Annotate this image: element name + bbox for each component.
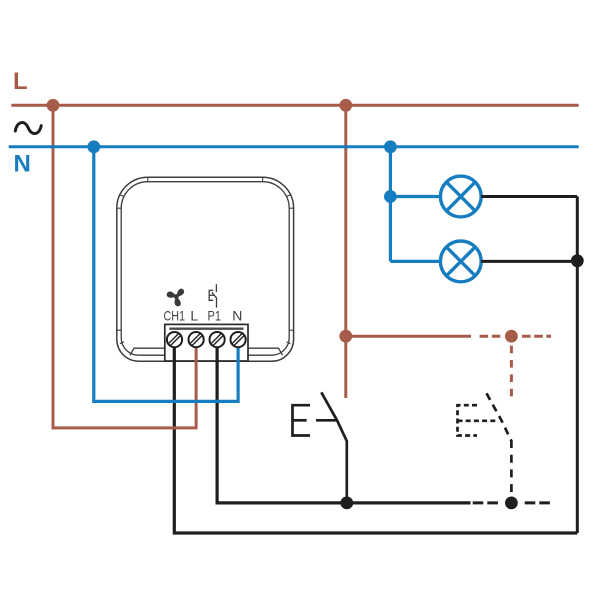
wire: black lamp E1 return: [481, 195, 577, 198]
wire: brown dashed drop to switch S2: [510, 346, 513, 398]
wire: N bus (blue neutral line): [9, 145, 579, 148]
wire: black P1 terminal to switches (solid part): [217, 344, 470, 503]
lamp E2 (circle with cross): [440, 241, 481, 282]
wire: brown drop from L bus to switch S1: [344, 105, 347, 398]
screw terminal N: [231, 332, 246, 347]
switch S2 dashed output wire: [510, 440, 513, 492]
svg-text:CH1: CH1: [164, 308, 186, 324]
wire: blue N feed to device N terminal: [94, 147, 238, 402]
wire: blue lamp feed vertical: [389, 147, 392, 262]
junction dot G brown at switch branch: [339, 330, 352, 343]
terminal block body: [165, 324, 248, 361]
mini switch icon (P1 marking): [209, 284, 216, 307]
device body inner outline: [121, 182, 289, 356]
wire: brown L feed lower run to device L terminal: [53, 344, 196, 428]
svg-text:N: N: [232, 308, 242, 324]
svg-text:N: N: [14, 151, 31, 178]
AC source symbol (sine wave): [15, 123, 41, 134]
wire: L bus (brown phase line): [11, 104, 578, 107]
device rim segment ticks: [117, 177, 294, 344]
switch S2 dashed actuator bracket (E shape): [458, 405, 498, 435]
device body outer outline: [117, 177, 294, 361]
screw terminal P1: [210, 332, 225, 347]
switch S1 lever and output wire: [321, 392, 347, 503]
switch S1 actuator bracket (E shape): [293, 405, 337, 435]
svg-text:L: L: [190, 308, 198, 324]
wire: black bottom return to CH1 terminal: [174, 344, 577, 533]
screw terminal L: [189, 332, 204, 347]
lamp E1 (circle with cross): [440, 176, 481, 217]
junction dot J black at switch S2 output: [505, 497, 518, 510]
wire: black lamp E2 return: [481, 260, 577, 263]
wire: brown drop from L bus toward device (upper vertical): [52, 105, 55, 429]
junction dot I black at switch S1 output: [340, 497, 353, 510]
screw terminal CH1: [167, 332, 182, 347]
junction dot E blue at lamp1 branch: [384, 190, 397, 203]
fan icon (channel load marking): [166, 289, 185, 308]
terminal block top strip: [169, 328, 243, 330]
wire: brown dashed branch to optional switch S2: [480, 335, 501, 338]
switch S2 dashed lever: [487, 393, 512, 441]
junction dot F black lamp returns: [571, 254, 584, 267]
wire: black dashed P1 extension to switch S2: [473, 501, 498, 504]
junction dot A on L bus: [47, 99, 60, 112]
svg-text:P1: P1: [208, 308, 222, 324]
junction dot D on N bus (lamp feed): [384, 140, 397, 153]
device bottom face edge line: [130, 348, 283, 355]
junction dot C on N bus: [87, 140, 100, 153]
wire: black right-side return vertical: [576, 197, 579, 534]
svg-text:L: L: [13, 68, 28, 95]
wire: black dashed P1 extension after dot J: [525, 501, 550, 504]
wire: blue to lamp E1: [390, 195, 441, 198]
junction dot H brown on dashed branch: [505, 330, 518, 343]
junction dot B on L bus (switch feed): [339, 99, 352, 112]
wire: brown branch to optional switch S2 (solid part): [346, 335, 471, 338]
wire: brown dashed branch after dot H: [522, 335, 551, 338]
wire: blue to lamp E2: [390, 260, 441, 263]
